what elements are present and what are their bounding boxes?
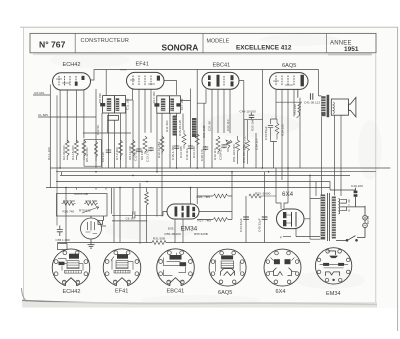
component R51 right xyxy=(236,136,240,164)
svg-text:CONSTRUCTEUR: CONSTRUCTEUR xyxy=(81,38,130,44)
EM34 electrodes xyxy=(175,206,196,218)
component C12 xyxy=(136,148,141,152)
page right inner fold xyxy=(375,54,377,303)
svg-text:C15-1.150: C15-1.150 xyxy=(171,145,175,160)
bus line 5 xyxy=(46,187,330,189)
wire mid vertical drops xyxy=(66,134,197,244)
resistor R27-7M5 bottom xyxy=(214,218,228,222)
wire extra risers band xyxy=(83,103,256,171)
output transformer xyxy=(321,95,329,117)
variable arrow R79 xyxy=(82,207,99,213)
wire tone cap branch xyxy=(297,89,299,97)
socket EM34 xyxy=(315,248,351,284)
svg-text:E05: E05 xyxy=(168,227,174,231)
ground oscillator xyxy=(88,239,95,248)
page left edge xyxy=(23,27,25,300)
svg-text:R8-11.040: R8-11.040 xyxy=(128,146,132,160)
filter capacitor C45 xyxy=(262,217,268,219)
component C15 xyxy=(174,145,179,149)
cathode network 6AQ5 xyxy=(268,119,279,142)
wire 6X4 to transformer xyxy=(283,199,320,240)
component C16 xyxy=(188,145,193,149)
svg-text:R12-41.054: R12-41.054 xyxy=(157,142,161,158)
component band: R1 xyxy=(82,140,86,160)
svg-text:EM34: EM34 xyxy=(326,291,341,297)
svg-text:C22 110: C22 110 xyxy=(226,119,230,131)
svg-text:R11 300: R11 300 xyxy=(165,120,169,132)
resistor R10 striated bar xyxy=(173,116,177,136)
svg-text:PU-240: PU-240 xyxy=(293,104,297,115)
component R12 xyxy=(160,136,164,154)
svg-text:R23- 5.600: R23- 5.600 xyxy=(255,191,271,195)
wire CV stub xyxy=(38,116,96,118)
svg-text:B2 48: B2 48 xyxy=(366,216,370,224)
svg-text:R26 740: R26 740 xyxy=(63,209,75,213)
header divider 2 xyxy=(202,33,204,52)
svg-text:GS MIL: GS MIL xyxy=(34,91,45,95)
component R6 xyxy=(119,140,123,160)
svg-text:EF41: EF41 xyxy=(136,62,149,68)
tube 6AQ5 electrodes xyxy=(273,75,304,87)
svg-text:EBC41: EBC41 xyxy=(213,63,231,69)
svg-text:C43 25µF: C43 25µF xyxy=(264,126,268,140)
svg-text:C25 8.196: C25 8.196 xyxy=(74,192,89,196)
bus line 4 xyxy=(56,181,330,183)
svg-text:R5-42.000: R5-42.000 xyxy=(85,147,89,162)
wire under 6AQ5 network xyxy=(294,98,300,169)
svg-text:R26- 7M5: R26- 7M5 xyxy=(197,195,211,199)
svg-text:C41-38.113: C41-38.113 xyxy=(304,101,320,105)
PU hook xyxy=(297,103,301,118)
svg-text:C11 152: C11 152 xyxy=(125,98,129,110)
svg-text:6AQ5: 6AQ5 xyxy=(282,63,296,69)
component C9 xyxy=(106,149,111,153)
svg-text:C13 170: C13 170 xyxy=(146,150,150,162)
svg-text:R58-181.078: R58-181.078 xyxy=(242,145,246,163)
svg-text:6AQ5: 6AQ5 xyxy=(218,290,232,296)
page bottom edge xyxy=(22,301,377,305)
EM34 envelope xyxy=(167,204,199,219)
terminal block xyxy=(58,244,68,250)
page right outer edge xyxy=(397,27,399,331)
junction dots xyxy=(59,167,311,188)
svg-text:C14 150: C14 150 xyxy=(152,91,156,103)
header box xyxy=(30,33,376,52)
svg-text:R9 130: R9 130 xyxy=(140,150,144,160)
component R14 xyxy=(195,132,199,149)
component R16 xyxy=(216,136,220,154)
header shadow under box xyxy=(33,54,370,56)
svg-text:C20/R17: C20/R17 xyxy=(219,148,223,160)
component R9 xyxy=(143,136,147,154)
svg-text:MODELE: MODELE xyxy=(207,38,230,44)
svg-text:R31 50B: R31 50B xyxy=(153,236,165,240)
series capacitor C6 xyxy=(112,211,167,221)
svg-text:C49-100: C49-100 xyxy=(351,184,363,188)
page sheet xyxy=(23,27,398,308)
svg-text:F: F xyxy=(280,236,282,240)
secondary taps coil xyxy=(339,199,350,215)
svg-text:C45 32µF: C45 32µF xyxy=(257,218,261,232)
svg-text:R26 500: R26 500 xyxy=(63,199,75,203)
speaker xyxy=(331,97,356,117)
IF transformer T1 xyxy=(100,96,126,121)
svg-text:C65 1.300: C65 1.300 xyxy=(56,238,71,242)
padder capacitor C65 xyxy=(57,95,63,236)
wire IFT2 to EBC41 xyxy=(181,89,191,168)
resistor R26 horizontal xyxy=(62,202,76,206)
6X4 electrodes xyxy=(283,212,296,227)
svg-text:C18 170: C18 170 xyxy=(200,149,204,161)
IF transformer T2 xyxy=(154,96,180,113)
pilot lamp B2 xyxy=(357,206,367,238)
svg-text:C6 107: C6 107 xyxy=(126,217,136,221)
svg-text:R7-2.200: R7-2.200 xyxy=(115,147,119,160)
socket EF41 xyxy=(103,249,141,287)
svg-text:R55 920B: R55 920B xyxy=(194,232,208,236)
svg-text:R16 110: R16 110 xyxy=(213,148,217,160)
page top edge xyxy=(20,26,398,28)
component R8 xyxy=(131,140,135,160)
svg-text:C16 110: C16 110 xyxy=(185,148,189,160)
wire EF41 plate to IFT2 xyxy=(164,81,177,96)
component band: R3 xyxy=(74,140,78,160)
resistor R32 horizontal xyxy=(84,202,98,206)
tube EF41 electrodes xyxy=(130,76,160,87)
svg-text:C10 50: C10 50 xyxy=(96,125,100,135)
svg-text:C12 110: C12 110 xyxy=(134,149,138,161)
svg-text:R55-38.200: R55-38.200 xyxy=(165,232,181,236)
resistor R26-7M5 top xyxy=(214,194,228,198)
bus wires xyxy=(46,168,390,188)
wire 6AQ5 plate to output transformer xyxy=(263,70,322,196)
tube ECH42 envelope xyxy=(53,73,91,90)
page bottom-left corner curl xyxy=(22,288,28,302)
svg-text:R21 1M2: R21 1M2 xyxy=(202,125,206,138)
6X4 envelope xyxy=(277,209,305,229)
wire bottom long xyxy=(57,242,310,244)
svg-text:6X4: 6X4 xyxy=(282,191,294,198)
socket EBC41 xyxy=(157,249,195,287)
svg-text:N° 767: N° 767 xyxy=(39,39,66,49)
svg-text:EXCELLENCE 412: EXCELLENCE 412 xyxy=(236,44,292,51)
switch xyxy=(336,236,357,242)
wire EBC41 pin drops xyxy=(197,89,230,168)
svg-text:C21 95: C21 95 xyxy=(208,121,212,131)
paper mottling xyxy=(50,34,382,305)
wire IFT2 drops xyxy=(162,114,177,169)
svg-text:R51-163.000: R51-163.000 xyxy=(232,144,236,162)
tube 6AQ5 envelope xyxy=(270,73,309,90)
power transformer xyxy=(321,193,336,241)
socket 6X4 xyxy=(264,249,301,286)
svg-text:ECH42: ECH42 xyxy=(63,62,81,68)
tube ECH42 electrodes xyxy=(56,76,85,86)
wire EBC41 plate right xyxy=(239,81,263,169)
tube EBC41 electrodes xyxy=(208,75,234,87)
svg-text:SONORA: SONORA xyxy=(162,42,199,52)
wire EM34 right node xyxy=(197,172,232,220)
svg-text:R79 825: R79 825 xyxy=(79,208,91,212)
bus line 3 xyxy=(60,174,350,176)
svg-text:R4-18.200: R4-18.200 xyxy=(71,145,75,160)
header divider 1 xyxy=(74,33,76,52)
wire EF41 pin drops xyxy=(133,89,151,168)
svg-text:C8 150: C8 150 xyxy=(98,93,102,103)
svg-text:EF41: EF41 xyxy=(115,288,128,294)
resistor R55 horizontal xyxy=(152,241,166,245)
svg-text:R13 185: R13 185 xyxy=(179,146,183,158)
svg-text:C44 32µF: C44 32µF xyxy=(239,218,243,232)
wire speaker leads xyxy=(335,116,342,197)
wire IFT1 bottom drop xyxy=(109,113,121,168)
resistor R11 striated bar xyxy=(192,118,196,137)
wire IFT1 to EF41 grid xyxy=(120,70,133,100)
svg-text:R32 500: R32 500 xyxy=(86,199,98,203)
pot box R5 xyxy=(84,140,101,167)
oscillator coil circle xyxy=(81,216,107,239)
svg-text:R18 150: R18 150 xyxy=(281,124,285,136)
svg-text:1951: 1951 xyxy=(344,46,359,53)
component R58 right xyxy=(246,120,250,164)
wire AVC top line xyxy=(106,70,262,169)
wire C48 node to 6AQ5 xyxy=(251,113,253,120)
header divider 3 xyxy=(326,33,328,52)
capacitor C48 detector xyxy=(249,115,254,117)
socket 6AQ5 xyxy=(209,249,246,286)
svg-text:ECH42: ECH42 xyxy=(63,289,81,295)
component C20 xyxy=(221,140,232,152)
oscillator box xyxy=(57,194,108,217)
tube EBC41 envelope xyxy=(202,72,239,89)
svg-text:C48-10.000: C48-10.000 xyxy=(240,109,256,113)
capacitor tone C46 xyxy=(310,93,312,100)
svg-text:R27- 7M5: R27- 7M5 xyxy=(198,218,212,222)
wire 6AQ5 pin drops xyxy=(274,89,298,189)
component C18 xyxy=(203,146,208,150)
wire antenna stub xyxy=(33,94,50,96)
svg-text:R2-30.000: R2-30.000 xyxy=(62,145,66,160)
wires power section verticals xyxy=(246,168,316,243)
svg-text:6X4: 6X4 xyxy=(276,289,286,295)
svg-text:CL 825: CL 825 xyxy=(38,113,48,117)
tube EF41 envelope xyxy=(127,72,165,89)
bus line 2 xyxy=(56,172,376,176)
svg-text:R1-1.100: R1-1.100 xyxy=(47,147,51,160)
wire ECH42 pin drops xyxy=(50,85,84,188)
wire ECH42 plate to IFT1 xyxy=(91,70,107,168)
filter capacitor C44 xyxy=(243,217,249,219)
svg-text:R15-15.120: R15-15.120 xyxy=(178,120,182,136)
svg-text:EBC41: EBC41 xyxy=(167,288,185,294)
svg-text:C39 110: C39 110 xyxy=(255,138,259,150)
bus line 1 xyxy=(50,167,390,169)
fuse C49 right xyxy=(330,182,365,207)
svg-text:R14 130: R14 130 xyxy=(192,146,196,158)
socket ECH42 xyxy=(52,249,90,287)
svg-text:C17 152: C17 152 xyxy=(180,98,184,110)
component C13 xyxy=(148,147,153,151)
component R13 xyxy=(182,130,186,149)
svg-text:R20 1M: R20 1M xyxy=(251,120,255,131)
svg-text:C9 110: C9 110 xyxy=(101,152,105,162)
component band: R2 xyxy=(65,140,69,160)
